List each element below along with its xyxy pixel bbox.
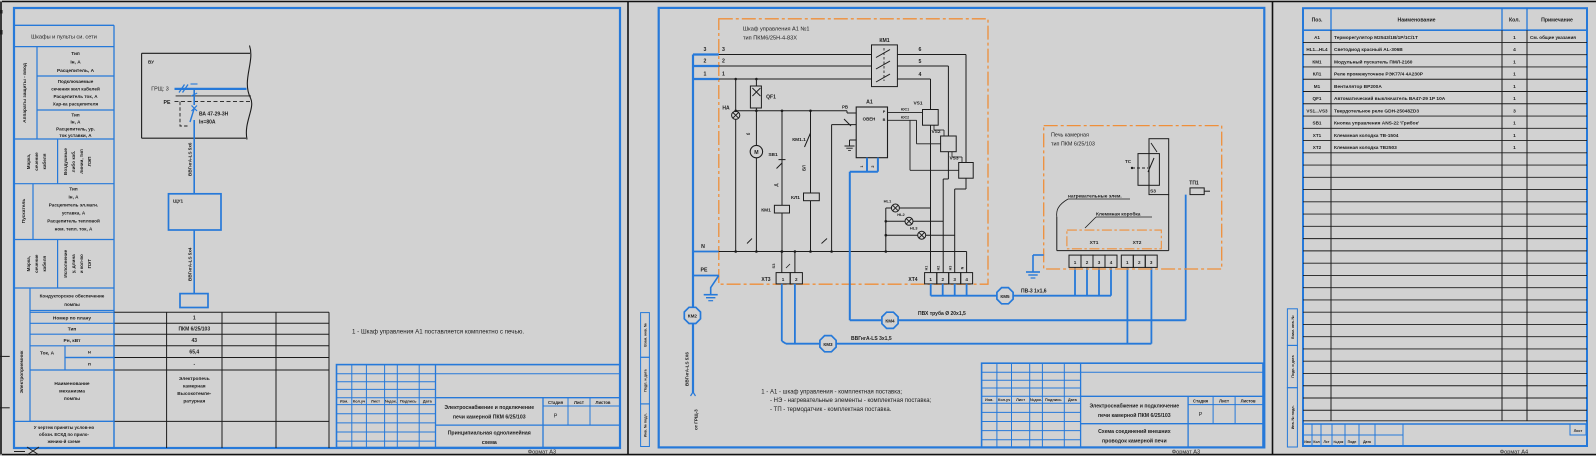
svg-text:ратурная: ратурная [183, 400, 205, 405]
svg-text:Н3: Н3 [949, 266, 953, 271]
svg-text:3: 3 [953, 277, 956, 282]
svg-text:сечения жил кабелей: сечения жил кабелей [51, 86, 100, 92]
svg-text:Расцепитель, А: Расцепитель, А [57, 68, 95, 74]
svg-text:2: 2 [795, 277, 798, 282]
svg-text:Клеммная колодка ТВ2503: Клеммная колодка ТВ2503 [1334, 145, 1397, 151]
svg-text:Подпись: Подпись [1045, 398, 1062, 402]
svg-text:4: 4 [965, 277, 968, 282]
svg-text:сечение: сечение [34, 152, 39, 171]
svg-text:НА: НА [722, 106, 730, 112]
svg-text:ХТ1: ХТ1 [1090, 240, 1099, 246]
svg-text:1: 1 [1513, 145, 1516, 151]
svg-text:HL3: HL3 [910, 226, 918, 231]
svg-text:№док: №док [1334, 440, 1344, 444]
svg-text:н: н [88, 351, 91, 356]
svg-text:Лист: Лист [1574, 429, 1583, 433]
svg-text:Кол.уч: Кол.уч [353, 400, 365, 404]
svg-text:1: 1 [193, 316, 196, 322]
svg-text:кабеля: кабеля [41, 255, 47, 271]
svg-text:Тип: Тип [71, 51, 80, 57]
svg-text:Листов: Листов [1241, 399, 1256, 404]
svg-text:В: В [883, 118, 886, 122]
svg-text:Реле промежуточное РЭК77/4 4А2: Реле промежуточное РЭК77/4 4А230Р [1334, 72, 1424, 78]
svg-text:Iн, А: Iн, А [69, 195, 80, 200]
svg-text:Лст: Лст [1324, 440, 1330, 444]
svg-text:ВА 47-29-3Н: ВА 47-29-3Н [199, 112, 229, 118]
svg-text:Наименование: Наименование [1397, 18, 1435, 24]
svg-text:Рн, кВт: Рн, кВт [64, 338, 82, 344]
svg-text:Кондукторское обеспечение: Кондукторское обеспечение [40, 293, 105, 299]
svg-text:QF1: QF1 [766, 95, 776, 101]
svg-text:VS1...VS3: VS1...VS3 [1306, 108, 1328, 113]
svg-text:ХТ2: ХТ2 [1133, 240, 1142, 246]
svg-text:Автоматический выключатель ВА4: Автоматический выключатель ВА47-29 1Р 10… [1334, 95, 1446, 102]
svg-text:1: 1 [1513, 96, 1516, 102]
svg-text:№док.: №док. [1030, 398, 1042, 402]
svg-text:HL1...HL4: HL1...HL4 [1306, 47, 1328, 52]
svg-text:HL2: HL2 [897, 212, 905, 217]
svg-text:ГРЩ: 3: ГРЩ: 3 [151, 87, 169, 93]
svg-text:1: 1 [1074, 260, 1077, 265]
svg-text:Клеммная колодка ТВ-1504: Клеммная колодка ТВ-1504 [1334, 133, 1399, 139]
svg-text:Расцепитель тепловой: Расцепитель тепловой [47, 218, 100, 224]
svg-text:кабеля: кабеля [41, 153, 47, 169]
svg-text:ПЭТ: ПЭТ [87, 259, 92, 269]
svg-text:помпы: помпы [64, 397, 80, 402]
svg-text:Терморегулятор М2543/1В/1Р/1С/: Терморегулятор М2543/1В/1Р/1С/1Т [1334, 35, 1418, 41]
svg-text:1: 1 [1126, 260, 1129, 265]
svg-text:1: 1 [722, 72, 725, 78]
svg-text:Р: Р [554, 414, 558, 420]
svg-text:Аппараты защиты - ввод: Аппараты защиты - ввод [22, 63, 28, 123]
svg-text:Тип: Тип [71, 113, 79, 118]
svg-text:У чертеж приняты услов-но: У чертеж приняты услов-но [34, 425, 95, 430]
svg-text:Р: Р [1199, 412, 1203, 418]
svg-text:ОВЕН: ОВЕН [863, 117, 876, 122]
svg-text:КМ5: КМ5 [1000, 294, 1010, 299]
svg-text:N: N [961, 266, 965, 269]
svg-text:Марка,: Марка, [26, 154, 31, 169]
svg-text:механизма: механизма [59, 390, 85, 395]
svg-text:Инв. № подл.: Инв. № подл. [1291, 405, 1295, 429]
svg-text:Поз.: Поз. [1312, 18, 1323, 24]
svg-text:5: 5 [919, 59, 922, 65]
svg-text:VS1: VS1 [913, 101, 922, 107]
svg-text:Изм.: Изм. [985, 398, 993, 402]
svg-text:КМ2: КМ2 [688, 314, 698, 319]
svg-text:2: 2 [1086, 260, 1089, 265]
svg-text:Формат А3: Формат А3 [1172, 449, 1200, 455]
svg-text:ном. тепл. ток, А: ном. тепл. ток, А [55, 227, 93, 232]
svg-text:Номер по плану: Номер по плану [53, 316, 91, 322]
svg-text:Хар-ка расцепителя: Хар-ка расцепителя [53, 102, 99, 107]
svg-text:Дата: Дата [1363, 440, 1371, 444]
svg-text:БЛ: БЛ [802, 165, 807, 171]
svg-text:Вентилятор ВР200А: Вентилятор ВР200А [1334, 84, 1382, 90]
svg-text:ЮС2: ЮС2 [901, 116, 909, 120]
svg-text:Исполнение: Исполнение [63, 249, 68, 277]
svg-text:Стадия: Стадия [548, 400, 564, 405]
svg-text:3: 3 [722, 47, 725, 53]
svg-text:КМ4: КМ4 [885, 319, 895, 324]
svg-text:тип ПКМ 6/25/103: тип ПКМ 6/25/103 [1051, 142, 1095, 148]
svg-text:Кнопка управления ANS-22 'Гриб: Кнопка управления ANS-22 'Грибок' [1334, 120, 1419, 127]
svg-text:Расцепитель ток, А: Расцепитель ток, А [53, 94, 98, 99]
svg-text:Р: Р [883, 110, 886, 114]
svg-text:ВВГнгА-LS 3х1,5: ВВГнгА-LS 3х1,5 [851, 336, 892, 342]
svg-text:1: 1 [704, 72, 707, 78]
svg-text:1: 1 [1513, 133, 1516, 139]
svg-text:Iн, А: Iн, А [71, 120, 82, 125]
svg-text:Подп: Подп [1348, 440, 1357, 444]
svg-text:ток уставки, А: ток уставки, А [59, 133, 92, 138]
svg-text:QF1: QF1 [1313, 96, 1322, 101]
svg-text:1: 1 [1513, 35, 1516, 41]
svg-text:2: 2 [1138, 260, 1141, 265]
svg-text:1: 1 [1513, 121, 1516, 127]
svg-text:HL1: HL1 [884, 199, 892, 204]
svg-text:ТП1: ТП1 [1189, 181, 1199, 187]
svg-text:Электроприемник: Электроприемник [19, 350, 25, 393]
svg-text:43: 43 [192, 338, 198, 344]
svg-text:Подп. и дата: Подп. и дата [644, 368, 648, 391]
svg-text:печи камерной ПКМ 6/25/103: печи камерной ПКМ 6/25/103 [453, 414, 526, 421]
svg-text:А1: А1 [866, 100, 873, 106]
svg-text:S3: S3 [771, 263, 776, 269]
svg-text:Iн=80А: Iн=80А [199, 120, 216, 126]
svg-text:1: 1 [860, 165, 864, 167]
svg-text:Инв. № подл.: Инв. № подл. [644, 413, 648, 437]
svg-text:Марка,: Марка, [26, 256, 31, 271]
svg-text:Печь камерная: Печь камерная [1051, 133, 1089, 139]
svg-text:ЩУ1: ЩУ1 [173, 199, 184, 204]
svg-text:ХТ3: ХТ3 [761, 277, 770, 283]
svg-text:3: 3 [1098, 260, 1101, 265]
svg-text:ЛЭП: ЛЭП [87, 157, 92, 167]
svg-text:А1: А1 [1314, 35, 1320, 40]
svg-text:2: 2 [871, 165, 875, 167]
svg-text:КЛ1: КЛ1 [791, 195, 800, 201]
svg-text:Схема соединений внешних: Схема соединений внешних [1098, 428, 1171, 435]
svg-text:ВВГнгА-LS 5Х6: ВВГнгА-LS 5Х6 [685, 352, 690, 386]
svg-text:Электроснабжение и подключение: Электроснабжение и подключение [1089, 403, 1179, 410]
svg-text:Подпись: Подпись [400, 400, 417, 404]
svg-text:либо каб.: либо каб. [70, 151, 76, 173]
svg-text:ПКМ 6/25/103: ПКМ 6/25/103 [178, 327, 210, 333]
svg-text:Листов: Листов [596, 400, 611, 405]
svg-text:ХТ4: ХТ4 [908, 277, 917, 283]
svg-text:Iн, А: Iн, А [70, 60, 81, 66]
svg-text:КМ1.1: КМ1.1 [792, 137, 806, 143]
svg-text:Формат А3: Формат А3 [528, 449, 556, 455]
svg-text:КМ3: КМ3 [823, 342, 833, 347]
svg-text:Кол: Кол [1313, 440, 1319, 444]
svg-text:ТС: ТС [1125, 159, 1132, 164]
svg-text:Н2: Н2 [937, 266, 941, 271]
svg-text:Дата: Дата [423, 400, 433, 404]
svg-text:М: М [754, 150, 758, 156]
svg-text:помпы: помпы [64, 302, 80, 307]
svg-text:1: 1 [1513, 72, 1516, 78]
svg-text:б: б [746, 132, 751, 135]
svg-text:Д: Д [774, 183, 779, 186]
svg-text:SB1: SB1 [768, 152, 778, 158]
svg-text:65,4: 65,4 [189, 350, 199, 356]
svg-text:Формат А4: Формат А4 [1500, 449, 1528, 455]
svg-text:ПВ-3 1х1,6: ПВ-3 1х1,6 [1021, 288, 1047, 294]
svg-text:от ГРЩ-3: от ГРЩ-3 [694, 409, 699, 430]
svg-text:ЮС1: ЮС1 [901, 108, 909, 112]
svg-text:Клеммная коробка: Клеммная коробка [1096, 211, 1141, 218]
svg-text:Лист: Лист [1016, 398, 1025, 402]
svg-text:Пускатель: Пускатель [21, 199, 27, 224]
svg-text:камерная: камерная [183, 385, 206, 390]
svg-text:PE: PE [701, 268, 708, 274]
svg-text:Наименование: Наименование [54, 381, 90, 387]
svg-text:печи камерной ПКМ 6/25/103: печи камерной ПКМ 6/25/103 [1098, 412, 1171, 419]
svg-text:Стадия: Стадия [1193, 399, 1209, 404]
svg-text:Высокотемпе-: Высокотемпе- [177, 391, 211, 397]
svg-text:ХТ1: ХТ1 [1313, 133, 1322, 138]
svg-text:Н1: Н1 [925, 266, 929, 271]
svg-text:Взам. инв. №: Взам. инв. № [1291, 315, 1295, 339]
svg-text:VS3: VS3 [949, 156, 958, 162]
svg-text:N: N [701, 244, 705, 250]
svg-text:Твердотельное реле GDH-25048ZD: Твердотельное реле GDH-25048ZD3 [1334, 108, 1419, 114]
svg-text:Кол.: Кол. [1509, 18, 1521, 24]
svg-text:и кол-во: и кол-во [79, 254, 84, 273]
svg-text:ВВГнгА-LS 5х4: ВВГнгА-LS 5х4 [188, 247, 193, 281]
svg-text:1: 1 [1513, 84, 1516, 90]
svg-text:Тип: Тип [68, 327, 77, 333]
svg-text:Воздушные: Воздушные [63, 148, 68, 175]
svg-text:РВ: РВ [842, 105, 848, 110]
svg-text:4: 4 [1513, 47, 1516, 53]
svg-text:линии, тип: линии, тип [79, 149, 84, 174]
svg-text:у, длина: у, длина [71, 254, 76, 273]
svg-text:Лист: Лист [574, 400, 584, 405]
svg-text:схема: схема [482, 440, 497, 446]
svg-text:1: 1 [782, 277, 785, 282]
svg-text:1: 1 [929, 277, 932, 282]
svg-text:PE: PE [164, 100, 171, 106]
svg-text:ПВХ труба Ø 20х1,5: ПВХ труба Ø 20х1,5 [918, 310, 966, 317]
svg-text:КЛ1: КЛ1 [1313, 72, 1322, 77]
svg-text:SB1: SB1 [1313, 121, 1322, 126]
svg-text:Примечание: Примечание [1541, 18, 1573, 24]
svg-text:3: 3 [1513, 108, 1516, 114]
svg-text:Лист: Лист [1219, 399, 1229, 404]
svg-text:Расцепитель, ур.: Расцепитель, ур. [56, 127, 95, 132]
svg-text:Шкаф управления А1 №1: Шкаф управления А1 №1 [743, 27, 810, 33]
svg-text:обозн. ЕСКД по прило-: обозн. ЕСКД по прило- [39, 432, 89, 437]
svg-text:3: 3 [1150, 260, 1153, 265]
svg-text:Лист: Лист [371, 400, 380, 404]
svg-text:4: 4 [919, 72, 922, 78]
svg-text:Ток, А: Ток, А [40, 351, 55, 357]
svg-text:S3: S3 [1150, 189, 1156, 195]
svg-text:Подключаемые: Подключаемые [58, 79, 94, 84]
svg-text:2: 2 [704, 59, 707, 65]
svg-text:6: 6 [919, 47, 922, 53]
svg-text:КМ1: КМ1 [1312, 59, 1322, 64]
svg-text:- НЭ - нагревательные элементы: - НЭ - нагревательные элементы - комплек… [770, 398, 932, 404]
svg-text:п: п [88, 363, 91, 368]
svg-text:проводок камерной печи: проводок камерной печи [1102, 438, 1167, 445]
svg-text:Подп. и дата: Подп. и дата [1291, 354, 1295, 377]
svg-text:Принципиальная однолинейная: Принципиальная однолинейная [448, 430, 531, 437]
svg-text:2: 2 [941, 277, 944, 282]
svg-text:жению-й схеме: жению-й схеме [47, 439, 81, 444]
svg-text:Дата: Дата [1068, 398, 1078, 402]
svg-text:1 - Шкаф управления А1 поставл: 1 - Шкаф управления А1 поставляется комп… [352, 329, 524, 336]
svg-text:Модульный пускатель ПМЛ-2160: Модульный пускатель ПМЛ-2160 [1334, 58, 1413, 65]
svg-text:Тип: Тип [69, 187, 77, 192]
svg-text:№док.: №док. [385, 400, 397, 404]
svg-text:уставка, А: уставка, А [62, 211, 86, 216]
svg-text:КМ1: КМ1 [761, 208, 771, 214]
svg-text:Расцепитель эл.магн.: Расцепитель эл.магн. [49, 203, 98, 208]
svg-text:М1: М1 [1314, 84, 1321, 89]
svg-text:См. общие указания: См. общие указания [1530, 34, 1576, 40]
svg-text:4: 4 [1110, 260, 1113, 265]
svg-text:Кол.уч: Кол.уч [998, 398, 1010, 402]
svg-text:Изм: Изм [1304, 440, 1311, 444]
svg-text:1 - А1 - шкаф управления - ком: 1 - А1 - шкаф управления - комплектная п… [761, 390, 902, 396]
svg-text:Светодиод красный AL-306B: Светодиод красный AL-306B [1334, 46, 1403, 53]
svg-text:1: 1 [1513, 59, 1516, 65]
svg-text:КМ1: КМ1 [879, 38, 889, 44]
svg-text:ВВГнгА-LS 5х6: ВВГнгА-LS 5х6 [188, 142, 193, 176]
svg-text:Взам. инв. №: Взам. инв. № [644, 323, 648, 347]
svg-text:сечение: сечение [34, 254, 39, 273]
svg-text:- ТП - термодатчик - комплектн: - ТП - термодатчик - комплектная поставк… [770, 407, 892, 413]
svg-text:Электропечь: Электропечь [179, 376, 210, 382]
svg-text:Шкафы и пульты си. сети: Шкафы и пульты си. сети [31, 35, 97, 41]
svg-text:ХТ2: ХТ2 [1313, 145, 1322, 150]
svg-text:3: 3 [704, 47, 707, 53]
svg-text:2: 2 [722, 59, 725, 65]
svg-text:тип ПКМ6/25Н-4-83Х: тип ПКМ6/25Н-4-83Х [743, 36, 797, 42]
svg-text:Изм.: Изм. [340, 400, 348, 404]
svg-text:ВУ: ВУ [148, 60, 154, 65]
svg-text:Электроснабжение и подключение: Электроснабжение и подключение [444, 404, 534, 411]
